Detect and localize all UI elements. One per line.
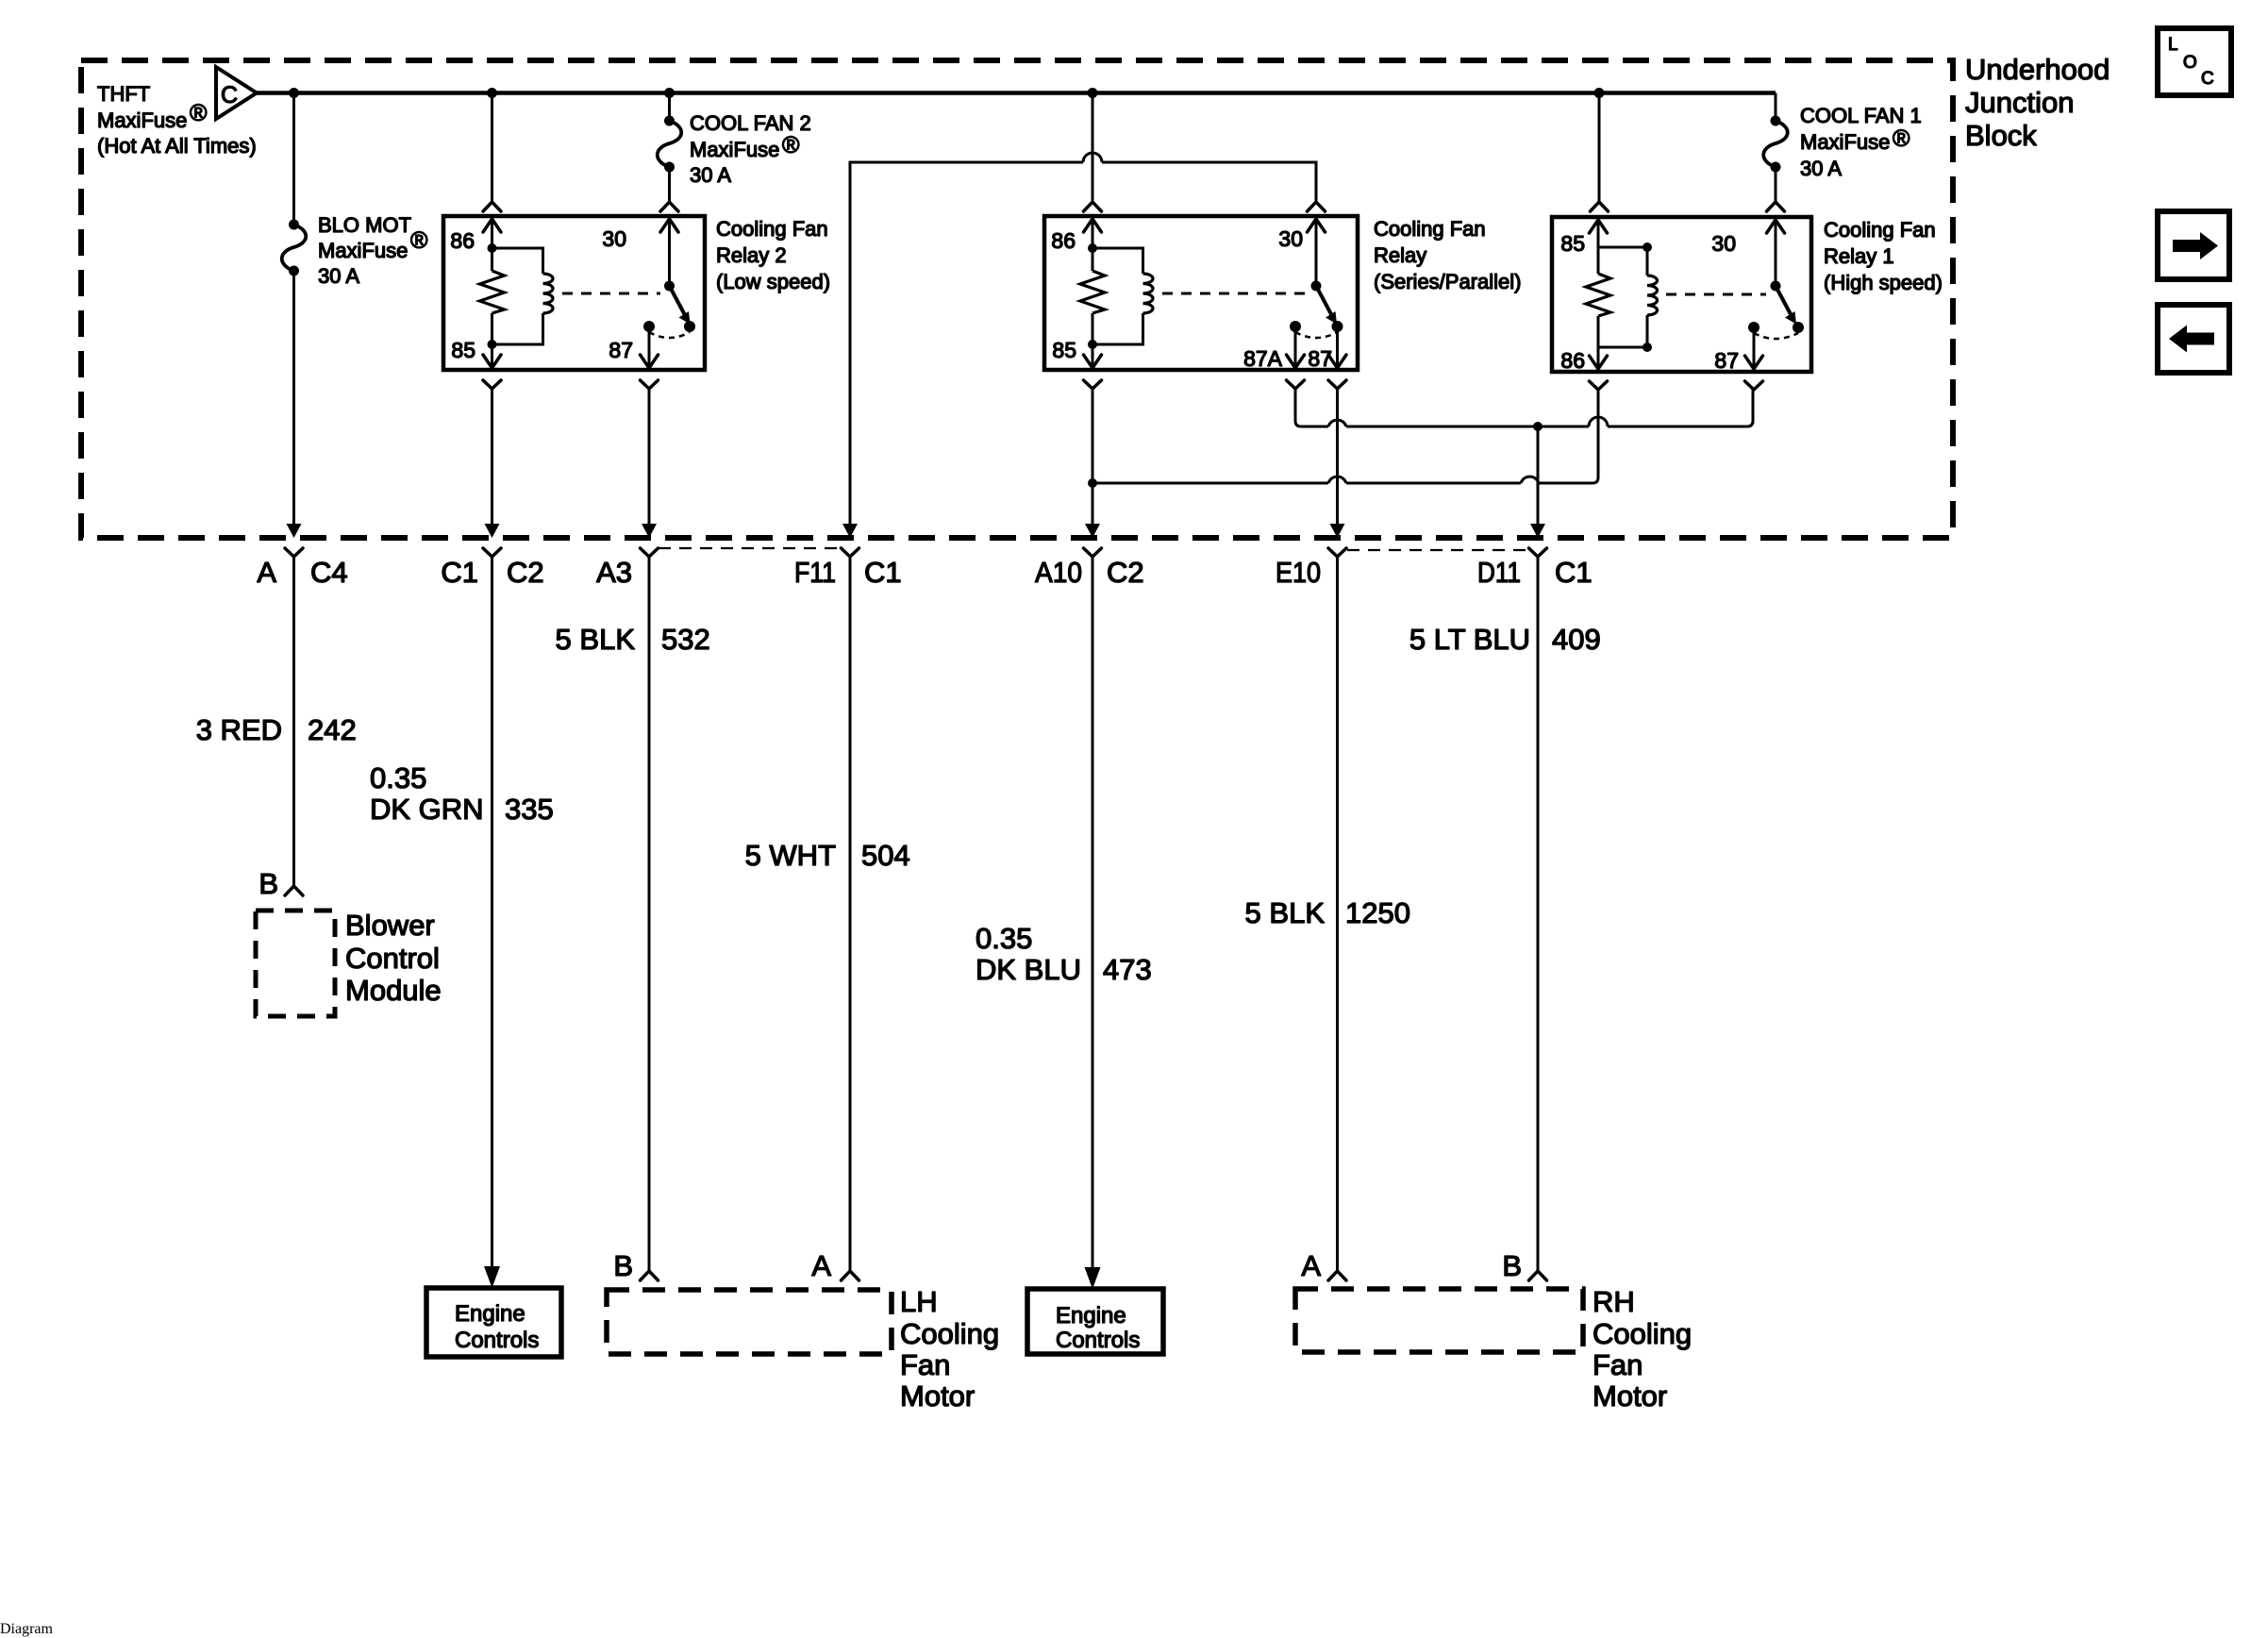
relay S/P pin 87A wire and arrow — [1294, 326, 1297, 368]
svg-text:Engine: Engine — [1056, 1303, 1126, 1329]
fuse BLO MOT MaxiFuse 30 A — [282, 225, 307, 271]
svg-text:LH: LH — [900, 1285, 938, 1318]
wire: D11 junction down to connector D11 — [1537, 426, 1540, 525]
connector fork A10/C2 — [1084, 548, 1102, 557]
label: Cooling Fan Relay (Series/Parallel) — [1374, 217, 1522, 293]
svg-text:C2: C2 — [1107, 556, 1144, 589]
svg-text:87A: 87A — [1243, 346, 1283, 371]
svg-text:85: 85 — [1052, 338, 1076, 362]
svg-text:C2: C2 — [507, 556, 544, 589]
wire: bus to cooling fan relay (S/P) pin 86 — [1092, 93, 1094, 203]
svg-text:Relay: Relay — [1374, 243, 1426, 267]
relay S/P contact dashed arc — [1295, 332, 1338, 338]
relay 2 resistor — [480, 271, 505, 313]
node: relay S/P coil top junction — [1088, 243, 1097, 253]
svg-text:®: ® — [410, 227, 428, 254]
connector fork below relay 1 pin 87 — [1745, 381, 1763, 390]
connector fork A3 — [641, 548, 659, 557]
svg-text:B: B — [613, 1249, 633, 1282]
label: Blower Control Module — [345, 909, 442, 1007]
wire: E10 to RH fan motor pin A, 5 BLK 1250 — [1336, 557, 1339, 1271]
node: relay 2 moving contact — [684, 321, 695, 332]
svg-text:(High speed): (High speed) — [1824, 271, 1943, 294]
wire: COOL FAN 1 fuse to relay 1 pin 30 — [1775, 167, 1777, 202]
hyperlink arrow box (back) — [2158, 305, 2229, 373]
svg-text:Cooling Fan: Cooling Fan — [1824, 218, 1936, 242]
label: THFT MaxiFuse (Hot At All Times) — [97, 82, 257, 158]
wire hop over D11 wire — [1521, 476, 1539, 483]
svg-text:A: A — [1301, 1249, 1321, 1282]
connector fork D11/C1 — [1529, 548, 1547, 557]
relay 1 contact dashed arc — [1754, 333, 1798, 339]
svg-text:L: L — [2168, 35, 2178, 55]
svg-text:87: 87 — [1714, 348, 1739, 373]
node: relay S/P switch pivot — [1311, 281, 1322, 292]
svg-text:THFT: THFT — [97, 82, 150, 106]
wire: relay 2 pin 85 to C2 connector — [491, 389, 493, 525]
wire: C4-A to blower control module pin B, 3 RED 242 — [292, 557, 295, 886]
relay 1 coil-line wire (pins 85-86) — [1597, 221, 1600, 274]
svg-text:DK GRN: DK GRN — [370, 793, 484, 826]
relay box: Cooling Fan Relay 1 (High speed) — [1552, 217, 1811, 372]
LOC reference box — [2158, 28, 2231, 95]
svg-text:MaxiFuse: MaxiFuse — [1800, 130, 1890, 154]
svg-text:335: 335 — [505, 793, 554, 826]
node: relay 1 contact 87 — [1748, 322, 1759, 333]
connector fork below relay S/P pin 87A — [1287, 380, 1305, 389]
svg-text:C1: C1 — [1555, 556, 1593, 589]
svg-text:Motor: Motor — [900, 1379, 975, 1412]
relay S/P resistor — [1080, 271, 1105, 313]
svg-text:0.35: 0.35 — [370, 761, 426, 794]
relay 1 resistor — [1586, 274, 1610, 316]
relay 1 actuation dashed link — [1666, 293, 1766, 296]
component box: LH Cooling Fan Motor — [607, 1290, 892, 1354]
wire: relay 2 pin 87 to A3 connector — [648, 389, 651, 525]
svg-text:COOL FAN 1: COOL FAN 1 — [1800, 104, 1922, 127]
svg-text:86: 86 — [1051, 228, 1076, 253]
svg-text:C1: C1 — [864, 556, 902, 589]
connector fork E10 — [1328, 548, 1346, 557]
svg-text:MaxiFuse: MaxiFuse — [97, 109, 187, 132]
relay 2 pin 85 arrow — [483, 355, 501, 368]
svg-text:Motor: Motor — [1593, 1379, 1667, 1412]
svg-text:MaxiFuse: MaxiFuse — [690, 138, 779, 161]
fuse COOL FAN 2 MaxiFuse 30 A — [658, 121, 682, 167]
component box: Blower Control Module — [256, 911, 335, 1016]
svg-text:C4: C4 — [310, 556, 348, 589]
svg-text:1250: 1250 — [1345, 896, 1410, 929]
relay 1 pin 30 wire and arrow — [1775, 221, 1777, 286]
wire hop over relay 1 pin 86 wire — [1589, 417, 1608, 426]
wire: relay S/P pin 85 down to connector A10 — [1092, 389, 1094, 525]
svg-text:5 BLK: 5 BLK — [1245, 896, 1326, 929]
relay 1 pin 87 wire and arrow — [1753, 327, 1756, 369]
svg-text:Cooling: Cooling — [1593, 1317, 1692, 1350]
node: relay S/P contact 87A — [1290, 321, 1301, 332]
fuse COOL FAN 1 MaxiFuse 30 A — [1763, 121, 1788, 167]
relay S/P pin 85 arrow — [1084, 355, 1102, 368]
svg-text:87: 87 — [609, 338, 633, 362]
wire: BLO MOT fuse to connector C4 pin A — [292, 271, 295, 525]
relay 2 pin 87 wire and arrow — [648, 326, 651, 368]
svg-text:409: 409 — [1552, 623, 1601, 656]
relay 2 pin 30 wire and arrow — [668, 220, 671, 286]
wire: relay S/P pin 87 down to connector E10 — [1336, 389, 1339, 525]
wire: relay S/P pin 30 feed line (to F11 / LH fan motor A) — [850, 162, 1083, 525]
wire label 0.35 DK GRN 335 — [370, 761, 554, 826]
svg-text:5 BLK: 5 BLK — [556, 623, 636, 656]
wire: relay S/P pin 85 to relay 1 pin 86 link — [1092, 482, 1328, 485]
svg-text:5 LT BLU: 5 LT BLU — [1409, 623, 1530, 656]
svg-text:Underhood: Underhood — [1965, 53, 2110, 86]
node: bus junction at BLO MOT drop — [289, 88, 299, 98]
svg-text:A10: A10 — [1035, 556, 1082, 589]
svg-text:®: ® — [190, 100, 208, 126]
wire: COOL FAN 2 fuse to relay 2 pin 30 — [668, 167, 671, 202]
wire: A3 to LH fan motor pin B, 5 BLK 532 — [648, 557, 651, 1271]
node: bus junction at COOL FAN 2 fuse drop — [664, 88, 675, 98]
relay S/P switch arm — [1316, 286, 1332, 315]
svg-text:Fan: Fan — [900, 1348, 950, 1381]
connector fork below relay S/P pin 85 — [1084, 380, 1102, 389]
svg-text:30: 30 — [602, 226, 626, 251]
svg-text:5 WHT: 5 WHT — [745, 839, 837, 872]
svg-text:Block: Block — [1965, 119, 2037, 152]
relay box: Cooling Fan Relay 2 (Low speed) — [443, 216, 705, 370]
svg-text:RH: RH — [1593, 1285, 1635, 1318]
label: Engine Controls (right) — [1056, 1303, 1140, 1353]
label: Engine Controls (left) — [455, 1301, 539, 1353]
wire: bus to BLO MOT fuse — [292, 93, 295, 226]
node: relay S/P contact 87 — [1332, 321, 1343, 332]
label: RH Cooling Fan Motor — [1593, 1285, 1692, 1412]
svg-text:A: A — [257, 556, 276, 589]
svg-text:(Series/Parallel): (Series/Parallel) — [1374, 270, 1522, 293]
svg-text:B: B — [1502, 1249, 1522, 1282]
svg-text:Relay 1: Relay 1 — [1824, 244, 1894, 268]
relay 1 pin 85 arrow — [1590, 220, 1608, 233]
svg-text:30: 30 — [1278, 226, 1303, 251]
wire: bus to COOL FAN 2 fuse — [668, 93, 671, 122]
svg-text:Cooling Fan: Cooling Fan — [716, 217, 828, 241]
svg-text:30 A: 30 A — [318, 264, 359, 288]
svg-text:Relay 2: Relay 2 — [716, 243, 787, 267]
label: COOL FAN 2 MaxiFuse 30 A — [690, 111, 811, 187]
node: relay 1 switch pivot — [1771, 281, 1781, 292]
connector fork below relay 2 pin 87 — [641, 380, 659, 389]
wire: A10 to engine controls (right), 0.35 DK BLU 473 — [1092, 557, 1094, 1267]
svg-text:242: 242 — [308, 713, 357, 746]
svg-text:Blower: Blower — [345, 909, 435, 942]
svg-text:Control: Control — [345, 942, 440, 975]
node: D11 branch junction — [1533, 422, 1543, 431]
wire: bus to relay 2 pin 86 — [491, 93, 493, 203]
svg-text:Cooling Fan: Cooling Fan — [1374, 217, 1486, 241]
svg-text:(Hot At All Times): (Hot At All Times) — [97, 134, 257, 158]
relay S/P coil-line wire (pins 86-85) — [1092, 220, 1094, 271]
svg-text:3 RED: 3 RED — [196, 713, 282, 746]
svg-text:MaxiFuse: MaxiFuse — [318, 239, 408, 262]
connector fork A/C4 — [285, 548, 303, 557]
relay 2 actuation dashed link — [562, 292, 660, 295]
svg-text:®: ® — [782, 132, 800, 159]
node: relay 2 coil bottom junction — [488, 340, 497, 349]
svg-text:Module: Module — [345, 974, 442, 1007]
svg-text:C: C — [2201, 69, 2214, 89]
svg-text:D11: D11 — [1477, 556, 1521, 589]
svg-text:O: O — [2183, 53, 2197, 73]
component box: Engine Controls (right) — [1027, 1289, 1163, 1354]
relay 2 pin 86 arrow — [483, 219, 501, 232]
wire: D11 to RH fan motor pin B, 5 LT BLU 409 — [1537, 557, 1540, 1271]
component box: RH Cooling Fan Motor — [1295, 1289, 1583, 1352]
relay box: Cooling Fan Relay (Series/Parallel) — [1044, 216, 1358, 370]
label: COOL FAN 1 MaxiFuse 30 A — [1800, 104, 1922, 180]
node: relay 1 moving contact — [1793, 322, 1804, 333]
label: BLO MOT MaxiFuse 30 A — [318, 213, 428, 288]
node: relay 1 coil bottom junction — [1643, 343, 1652, 352]
svg-text:Junction: Junction — [1965, 86, 2074, 119]
power feed triangle C — [216, 67, 257, 119]
relay S/P pin 86 arrow — [1084, 219, 1102, 232]
svg-text:C: C — [221, 82, 238, 109]
svg-text:Fan: Fan — [1593, 1348, 1643, 1381]
relay S/P pin 87 wire and arrow — [1336, 326, 1339, 368]
connector link dashed line E10-D11 — [1347, 549, 1528, 551]
svg-text:E10: E10 — [1276, 556, 1321, 589]
label: LH Cooling Fan Motor — [900, 1285, 999, 1412]
svg-text:473: 473 — [1103, 953, 1152, 986]
svg-text:85: 85 — [1560, 231, 1585, 256]
relay 2 switch arm — [670, 286, 686, 315]
wire: C2 to engine controls, 0.35 DK GRN 335 — [491, 557, 493, 1266]
svg-text:C1: C1 — [441, 556, 478, 589]
wire: bus to relay 1 pin 85 — [1598, 93, 1601, 203]
node: bus junction at relay 1 pin 85 drop — [1594, 88, 1605, 98]
node: relay 2 coil top junction — [488, 243, 497, 253]
wire: F11 to LH fan motor pin A, 5 WHT 504 — [849, 557, 852, 1271]
node: relay 2 contact 87 — [643, 321, 655, 332]
connector fork C1/C2 — [483, 548, 501, 557]
node: A10 branch junction — [1088, 478, 1097, 488]
relay 2 coil-line wire (pins 86-85) — [491, 220, 493, 271]
label: Cooling Fan Relay 2 (Low speed) — [716, 217, 830, 293]
svg-text:Controls: Controls — [1056, 1328, 1140, 1353]
svg-text:B: B — [258, 867, 278, 900]
node: relay S/P coil bottom junction — [1088, 340, 1097, 349]
svg-text:BLO MOT: BLO MOT — [318, 213, 411, 237]
node: relay 2 switch pivot — [664, 281, 675, 292]
svg-text:DK BLU: DK BLU — [976, 953, 1081, 986]
svg-text:A: A — [811, 1249, 831, 1282]
wire hop over pin-86 drop — [1083, 153, 1102, 162]
svg-text:86: 86 — [450, 228, 475, 253]
wire hop over E10 wire — [1328, 420, 1346, 426]
svg-text:30: 30 — [1711, 231, 1736, 256]
svg-text:A3: A3 — [596, 556, 632, 589]
wire: bus drop to COOL FAN 1 fuse — [1775, 93, 1777, 122]
svg-text:30 A: 30 A — [690, 163, 731, 187]
label: Cooling Fan Relay 1 (High speed) — [1824, 218, 1943, 294]
svg-text:85: 85 — [451, 338, 475, 362]
connector fork below relay 1 pin 86 — [1590, 381, 1608, 390]
svg-text:Controls: Controls — [455, 1328, 539, 1353]
svg-text:(Low speed): (Low speed) — [716, 270, 830, 293]
connector fork F11/C1 — [842, 548, 859, 557]
component box: Engine Controls (left) — [426, 1288, 561, 1357]
relay S/P coil branch — [1092, 248, 1143, 274]
connector link dashed line A3-F11 — [659, 547, 841, 549]
connector fork below relay S/P pin 87 — [1328, 380, 1346, 389]
wire hop over E10 wire — [1328, 476, 1346, 483]
connector fork below relay 2 pin 85 — [483, 380, 501, 389]
svg-text:®: ® — [1893, 125, 1910, 152]
bus wire (hot feed) from triangle to COOL FAN 1 drop — [257, 91, 1776, 95]
svg-text:30 A: 30 A — [1800, 157, 1842, 180]
node: relay 1 coil top junction — [1643, 242, 1652, 252]
relay 2 coil branch — [492, 248, 543, 274]
node: bus junction at relay 2 pin 86 drop — [487, 88, 497, 98]
svg-text:87: 87 — [1308, 346, 1332, 371]
wire: relay S/P 87A to D11 junction to relay 1 pin 87 — [1295, 389, 1328, 426]
svg-text:532: 532 — [661, 623, 710, 656]
relay S/P pin 30 wire and arrow — [1315, 220, 1318, 286]
svg-text:0.35: 0.35 — [976, 922, 1032, 955]
relay 2 contact dashed arc — [649, 332, 690, 338]
junction block boundary box (Underhood Junction Block) — [81, 60, 1953, 538]
hyperlink arrow box (forward) — [2158, 211, 2229, 279]
relay 1 coil branch — [1598, 247, 1647, 276]
relay 1 pin 86 arrow — [1590, 356, 1608, 369]
svg-text:Cooling: Cooling — [900, 1317, 999, 1350]
relay 1 switch arm — [1776, 286, 1792, 315]
node: bus junction at relay (S/P) pin 86 drop — [1088, 88, 1098, 98]
svg-text:504: 504 — [861, 839, 910, 872]
svg-text:Engine: Engine — [455, 1301, 525, 1327]
svg-text:86: 86 — [1560, 348, 1585, 373]
svg-text:F11: F11 — [794, 556, 836, 589]
relay S/P actuation dashed link — [1162, 292, 1308, 295]
wire label 0.35 DK BLU 473 — [976, 922, 1152, 986]
